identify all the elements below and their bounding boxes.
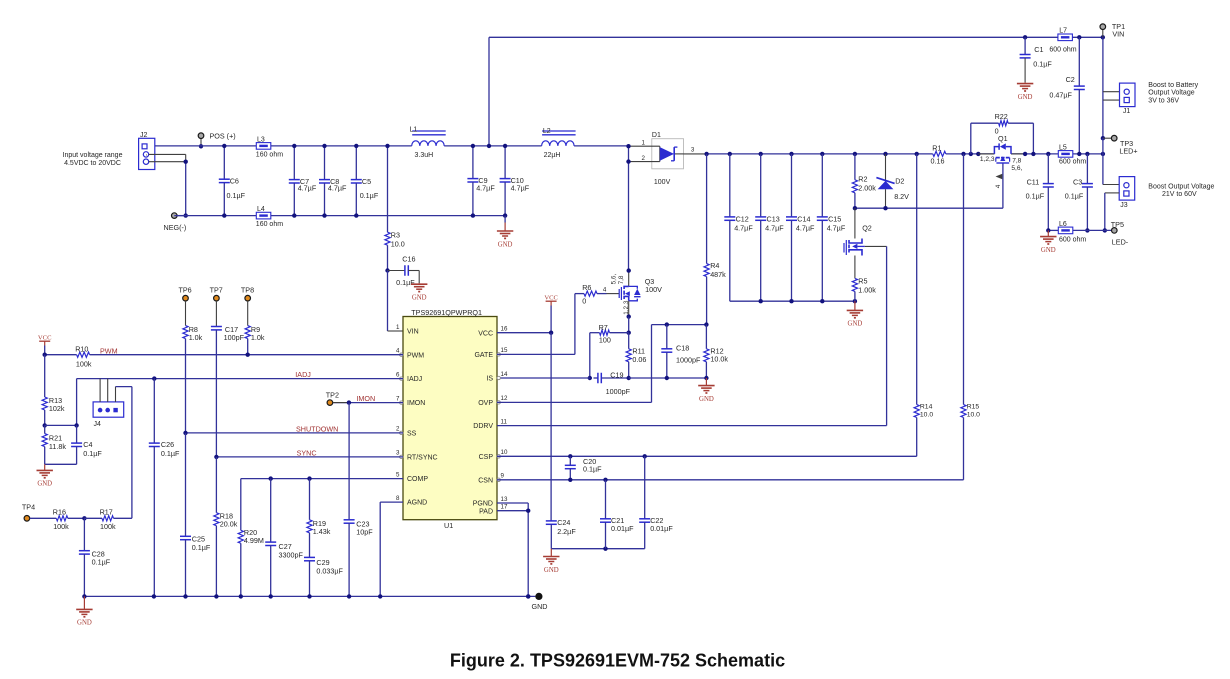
zener diode D2 — [883, 152, 887, 156]
svg-text:IMON: IMON — [356, 394, 375, 403]
wire DDRV net — [497, 425, 887, 427]
svg-text:L3: L3 — [257, 136, 265, 143]
wire IADJ net — [77, 378, 403, 380]
svg-text:IS: IS — [486, 376, 493, 383]
transistor Q2 — [844, 208, 872, 255]
svg-text:VIN: VIN — [1112, 30, 1124, 39]
svg-text:12: 12 — [501, 395, 508, 402]
capacitor C5 — [355, 146, 357, 180]
capacitor C10 — [504, 146, 506, 179]
svg-text:0.1µF: 0.1µF — [83, 449, 102, 458]
resistor R11 — [628, 333, 630, 349]
svg-text:0.1µF: 0.1µF — [583, 465, 602, 474]
ground below C24 — [550, 549, 552, 557]
svg-text:100k: 100k — [100, 522, 116, 531]
svg-text:R1: R1 — [932, 143, 941, 152]
connector J2 — [139, 132, 155, 170]
svg-text:1.00k: 1.00k — [858, 286, 876, 295]
svg-text:7: 7 — [396, 395, 400, 402]
svg-text:1000pF: 1000pF — [676, 355, 701, 364]
svg-text:R14: R14 — [920, 404, 933, 411]
svg-text:GND: GND — [1041, 247, 1056, 254]
wire Q3 source — [628, 301, 630, 317]
resistor R17 — [82, 516, 86, 520]
resistor R14 — [915, 152, 919, 156]
svg-text:L1: L1 — [410, 126, 418, 133]
svg-text:0.033µF: 0.033µF — [316, 566, 343, 575]
svg-text:GND: GND — [699, 396, 714, 403]
wire AGND net — [380, 501, 403, 503]
svg-text:TP2: TP2 — [326, 390, 339, 399]
op-amp U1 TPS92691QPWPRQ1 — [403, 308, 497, 530]
wire local gnd rail C24-C22 — [551, 548, 644, 550]
svg-text:2.00k: 2.00k — [858, 183, 876, 192]
test point TP8 — [245, 295, 251, 301]
svg-text:L2: L2 — [543, 128, 551, 135]
svg-text:R22: R22 — [995, 112, 1008, 121]
wire CSP net — [497, 455, 917, 457]
test point TP6 — [183, 295, 189, 301]
wire Q2 gate to DDRV — [865, 245, 887, 247]
svg-text:R10: R10 — [75, 345, 88, 354]
svg-text:GND: GND — [1018, 94, 1033, 101]
svg-text:2: 2 — [642, 155, 646, 162]
wire input bottom rail — [174, 215, 505, 217]
svg-text:4.7µF: 4.7µF — [328, 184, 347, 193]
ground below C28 rail — [83, 596, 85, 609]
wire CSN net — [497, 479, 964, 481]
svg-text:AGND: AGND — [407, 500, 427, 507]
svg-text:OVP: OVP — [478, 400, 493, 407]
svg-text:10pF: 10pF — [356, 528, 373, 537]
svg-text:11: 11 — [501, 418, 508, 425]
svg-text:160 ohm: 160 ohm — [256, 221, 283, 228]
svg-text:PWM: PWM — [407, 352, 424, 359]
svg-text:L4: L4 — [257, 206, 265, 213]
capacitor C19 — [588, 376, 592, 380]
svg-text:PAD: PAD — [479, 508, 493, 515]
ground below C10 — [504, 216, 506, 223]
resistor R19 — [307, 476, 311, 480]
node POS junction — [199, 144, 203, 148]
svg-text:2.2µF: 2.2µF — [557, 527, 576, 536]
svg-text:7,8: 7,8 — [1012, 157, 1021, 164]
wire IS net — [497, 377, 590, 379]
capacitor C3 — [1085, 152, 1089, 156]
svg-text:4.7µF: 4.7µF — [827, 224, 846, 233]
svg-text:100V: 100V — [645, 285, 662, 294]
wire OVP net — [497, 401, 652, 403]
wire Q3 gate stub — [607, 293, 620, 295]
wire J4 pin1 stub — [99, 379, 101, 402]
transistor Q3 — [619, 268, 662, 300]
wire GATE net — [497, 353, 575, 355]
wire NEG drop — [185, 162, 187, 216]
wire OVP riser — [651, 325, 653, 403]
svg-text:4.7µF: 4.7µF — [734, 224, 753, 233]
svg-text:R15: R15 — [967, 404, 980, 411]
svg-text:C26: C26 — [161, 440, 174, 449]
svg-text:SHUTDOWN: SHUTDOWN — [296, 424, 338, 433]
svg-text:600 ohm: 600 ohm — [1049, 47, 1076, 54]
svg-text:RT/SYNC: RT/SYNC — [407, 455, 438, 462]
svg-text:4.7µF: 4.7µF — [476, 184, 495, 193]
svg-text:7,8: 7,8 — [618, 275, 625, 284]
svg-text:LED-: LED- — [1112, 237, 1129, 246]
svg-text:L7: L7 — [1059, 27, 1067, 34]
svg-text:10.0: 10.0 — [391, 239, 405, 248]
svg-text:DDRV: DDRV — [473, 423, 493, 430]
wire boost output rail — [707, 153, 933, 155]
connector J4 — [93, 402, 124, 428]
capacitor C12 — [728, 152, 732, 156]
svg-text:1: 1 — [642, 139, 646, 146]
svg-text:J3: J3 — [1120, 202, 1128, 209]
wire J2 pin1 to POS — [145, 154, 148, 156]
svg-text:GND: GND — [498, 241, 513, 248]
wire PGND/PAD to GND — [497, 502, 528, 504]
svg-text:C3: C3 — [1073, 177, 1082, 186]
svg-text:COMP: COMP — [407, 476, 428, 483]
wire D1 anode junctions — [628, 146, 630, 271]
svg-text:IADJ: IADJ — [407, 376, 422, 383]
capacitor C28 — [83, 518, 85, 550]
svg-text:SYNC: SYNC — [297, 448, 317, 457]
svg-text:C1: C1 — [1034, 45, 1043, 54]
capacitor C21 — [603, 478, 607, 482]
resistor R2 — [853, 152, 857, 156]
resistor R1 — [933, 151, 946, 156]
resistor R15 — [961, 152, 965, 156]
svg-text:5,6,: 5,6, — [610, 274, 617, 285]
svg-text:0.1µF: 0.1µF — [161, 449, 180, 458]
wire RT/SYNC net — [216, 456, 403, 458]
svg-text:100k: 100k — [53, 522, 69, 531]
svg-text:CSN: CSN — [478, 477, 493, 484]
svg-text:Boost Output Voltage: Boost Output Voltage — [1148, 183, 1214, 190]
svg-text:Q2: Q2 — [862, 223, 872, 232]
transistor Q1 — [976, 134, 1027, 163]
test point TP7 — [214, 295, 220, 301]
svg-text:100V: 100V — [654, 179, 671, 186]
capacitor C6 — [223, 146, 225, 179]
svg-text:5,6,: 5,6, — [1011, 165, 1022, 172]
terminal GND — [535, 593, 542, 600]
svg-text:J2: J2 — [140, 132, 148, 139]
terminal POS(+) — [200, 138, 202, 146]
wire LED- bottom rail — [1048, 229, 1058, 231]
svg-text:C2: C2 — [1066, 75, 1075, 84]
svg-text:0.1µF: 0.1µF — [192, 543, 211, 552]
svg-text:Output Voltage: Output Voltage — [1148, 90, 1194, 97]
resistor R16 — [30, 517, 57, 519]
resistor R10 — [43, 353, 47, 357]
capacitor C4 — [45, 424, 77, 426]
svg-text:0.01µF: 0.01µF — [611, 524, 634, 533]
capacitor C29 — [304, 556, 315, 558]
svg-text:1000pF: 1000pF — [606, 387, 631, 396]
wire D1 output stub — [684, 153, 707, 155]
resistor R21 — [43, 423, 47, 427]
diode D1 — [629, 132, 684, 186]
wire PWM net — [45, 354, 76, 356]
resistor R12 — [704, 322, 708, 326]
svg-text:8.2V: 8.2V — [894, 192, 909, 201]
svg-text:GND: GND — [532, 602, 548, 611]
svg-text:IMON: IMON — [407, 400, 425, 407]
ferrite bead L5 — [1058, 151, 1073, 158]
capacitor C18 — [665, 322, 669, 326]
svg-text:4.7µF: 4.7µF — [511, 184, 530, 193]
capacitor C23 — [348, 403, 350, 520]
svg-text:13: 13 — [501, 496, 508, 503]
svg-text:0.01µF: 0.01µF — [650, 524, 673, 533]
test point TP3 — [1101, 136, 1105, 140]
svg-text:L5: L5 — [1059, 145, 1067, 152]
svg-text:NEG(-): NEG(-) — [164, 223, 187, 232]
capacitor C16 — [385, 268, 389, 272]
svg-text:C13: C13 — [767, 214, 780, 223]
ground below R21 — [44, 464, 46, 470]
test point TP2 — [327, 400, 333, 406]
svg-text:3V to 36V: 3V to 36V — [1148, 97, 1179, 104]
svg-text:GND: GND — [544, 567, 559, 574]
node SW riser junction — [487, 144, 491, 148]
svg-text:C19: C19 — [610, 370, 623, 379]
svg-text:C4: C4 — [83, 440, 92, 449]
svg-text:TP4: TP4 — [22, 503, 35, 512]
resistor R3 — [387, 146, 389, 232]
svg-text:14: 14 — [501, 371, 508, 378]
svg-text:D1: D1 — [652, 132, 661, 139]
wire VIN to U1 pin1 — [387, 271, 389, 332]
ferrite bead L3 — [256, 143, 271, 150]
resistor R4 — [704, 152, 708, 156]
svg-text:D2: D2 — [895, 177, 904, 186]
svg-text:10.0: 10.0 — [967, 411, 980, 418]
svg-text:100pF: 100pF — [224, 333, 245, 342]
svg-text:0: 0 — [582, 296, 586, 305]
svg-text:Input voltage range: Input voltage range — [63, 152, 123, 159]
svg-text:Q1: Q1 — [998, 134, 1008, 143]
svg-text:J4: J4 — [94, 421, 102, 428]
wire IMON net — [333, 402, 403, 404]
ground below C16 — [418, 283, 420, 284]
svg-text:2: 2 — [396, 426, 400, 433]
svg-text:PGND: PGND — [473, 501, 493, 508]
svg-text:160 ohm: 160 ohm — [256, 151, 283, 158]
svg-text:10.0k: 10.0k — [710, 355, 728, 364]
svg-text:POS (+): POS (+) — [210, 131, 236, 140]
svg-text:20.0k: 20.0k — [220, 520, 238, 529]
ground below R5 — [854, 301, 856, 310]
wire SS net — [186, 432, 404, 434]
svg-text:4: 4 — [603, 286, 607, 293]
wire Q1 gate drive line — [855, 207, 1003, 209]
svg-text:L6: L6 — [1059, 221, 1067, 228]
svg-text:4: 4 — [396, 348, 400, 355]
svg-text:6: 6 — [396, 371, 400, 378]
capacitor C27 — [269, 476, 273, 480]
svg-text:LED+: LED+ — [1119, 147, 1137, 156]
wire J2 pin2 — [149, 153, 186, 155]
svg-text:21V to 60V: 21V to 60V — [1162, 191, 1197, 198]
svg-text:0.1µF: 0.1µF — [227, 191, 246, 200]
svg-text:GND: GND — [412, 295, 427, 302]
svg-text:VCC: VCC — [478, 330, 493, 337]
capacitor C13 — [759, 152, 763, 156]
wire VCC stub down — [550, 306, 552, 333]
svg-text:Figure 2. TPS92691EVM-752 Sche: Figure 2. TPS92691EVM-752 Schematic — [450, 650, 785, 670]
svg-text:TPS92691QPWPRQ1: TPS92691QPWPRQ1 — [411, 308, 482, 317]
svg-text:100: 100 — [599, 336, 611, 345]
test point TP5 — [1112, 228, 1118, 234]
ground below R12 — [705, 378, 707, 386]
svg-text:0.16: 0.16 — [931, 157, 945, 166]
wire VCC pin16 — [497, 332, 551, 334]
capacitor C26 — [152, 376, 156, 380]
test point TP1 — [1101, 35, 1105, 39]
connector J1 — [1120, 83, 1136, 107]
wire AGND bottom rail — [84, 595, 535, 597]
svg-text:C18: C18 — [676, 344, 689, 353]
svg-text:0.1µF: 0.1µF — [92, 558, 111, 567]
wire main input rail — [155, 145, 256, 147]
svg-text:1: 1 — [396, 324, 400, 331]
ferrite bead L4 — [256, 212, 271, 219]
svg-text:CSP: CSP — [479, 454, 494, 461]
svg-text:0.1µF: 0.1µF — [1065, 192, 1084, 201]
svg-text:22µH: 22µH — [544, 152, 561, 159]
svg-text:TP6: TP6 — [179, 285, 192, 294]
svg-text:PWM: PWM — [100, 346, 118, 355]
wire VIN to J1 — [1102, 37, 1104, 138]
connector J3 — [1119, 177, 1135, 201]
svg-text:VIN: VIN — [407, 329, 419, 336]
wire J4 pin3 route — [115, 387, 117, 402]
capacitor C8 — [324, 146, 326, 180]
svg-text:5: 5 — [396, 471, 400, 478]
svg-text:1.0k: 1.0k — [251, 333, 265, 342]
wire COMP net — [241, 478, 403, 480]
svg-text:R16: R16 — [53, 507, 66, 516]
inductor L1 — [412, 141, 445, 146]
svg-text:SS: SS — [407, 431, 417, 438]
capacitor C14 — [789, 152, 793, 156]
svg-text:C12: C12 — [736, 214, 749, 223]
svg-text:TP7: TP7 — [210, 285, 223, 294]
capacitor C9 — [472, 146, 474, 179]
svg-text:U1: U1 — [444, 521, 453, 530]
svg-text:0.1µF: 0.1µF — [1026, 192, 1045, 201]
wire J2 pin3 — [149, 161, 186, 163]
svg-text:4.5VDC to 20VDC: 4.5VDC to 20VDC — [64, 160, 121, 167]
resistor R8 — [185, 301, 187, 326]
svg-text:C6: C6 — [230, 176, 239, 185]
svg-text:8: 8 — [396, 495, 400, 502]
svg-text:GATE: GATE — [474, 352, 493, 359]
capacitor C7 — [293, 146, 295, 180]
svg-text:4.7µF: 4.7µF — [298, 184, 317, 193]
svg-text:10: 10 — [501, 449, 508, 456]
inductor L2 — [542, 141, 575, 146]
svg-text:R3: R3 — [391, 230, 400, 239]
ground below C11/L6 — [1047, 230, 1049, 236]
svg-text:3300pF: 3300pF — [279, 550, 304, 559]
wire J4 pin2 stub — [107, 379, 109, 402]
svg-text:0.1µF: 0.1µF — [396, 278, 415, 287]
wire LED+ to J3 pin1 — [1101, 152, 1105, 156]
svg-text:4.99M: 4.99M — [244, 536, 264, 545]
svg-text:0.1µF: 0.1µF — [360, 191, 379, 200]
svg-text:TP8: TP8 — [241, 285, 254, 294]
svg-text:0.06: 0.06 — [632, 355, 646, 364]
svg-text:J1: J1 — [1123, 108, 1131, 115]
svg-text:1.0k: 1.0k — [189, 333, 203, 342]
svg-text:100k: 100k — [76, 359, 92, 368]
capacitor C15 — [820, 152, 824, 156]
svg-text:1.43k: 1.43k — [313, 527, 331, 536]
resistor R22 — [969, 152, 973, 156]
svg-text:3: 3 — [396, 450, 400, 457]
svg-text:4: 4 — [995, 184, 1002, 188]
svg-text:IADJ: IADJ — [295, 370, 311, 379]
svg-text:487k: 487k — [710, 270, 726, 279]
svg-text:4.7µF: 4.7µF — [765, 224, 784, 233]
svg-text:9: 9 — [501, 473, 505, 480]
ground below C1 — [1024, 82, 1026, 83]
svg-text:C24: C24 — [557, 518, 570, 527]
svg-text:16: 16 — [501, 326, 508, 333]
svg-text:3: 3 — [691, 146, 695, 153]
svg-text:C5: C5 — [362, 177, 371, 186]
wire VIN feedback top — [489, 36, 1103, 38]
capacitor C2 — [1077, 35, 1081, 39]
svg-text:R4: R4 — [710, 261, 719, 270]
svg-text:GND: GND — [37, 481, 52, 488]
resistor R13 — [44, 355, 46, 397]
svg-text:R6: R6 — [582, 283, 591, 292]
svg-text:4.7µF: 4.7µF — [796, 224, 815, 233]
wire C12-C15 bottom rail — [730, 300, 855, 302]
resistor R6 — [574, 294, 576, 355]
svg-text:R5: R5 — [858, 277, 867, 286]
capacitor C11 — [1046, 152, 1050, 156]
svg-text:R7: R7 — [599, 323, 608, 332]
svg-text:C16: C16 — [402, 255, 415, 264]
svg-text:15: 15 — [501, 347, 508, 354]
capacitor C17 — [215, 301, 217, 327]
svg-text:C15: C15 — [828, 214, 841, 223]
svg-text:17: 17 — [501, 504, 508, 511]
svg-text:Boost to Battery: Boost to Battery — [1148, 82, 1198, 89]
svg-text:102k: 102k — [49, 404, 65, 413]
ferrite bead L7 — [1058, 34, 1073, 41]
svg-text:1,2,3: 1,2,3 — [980, 156, 995, 163]
svg-text:C11: C11 — [1027, 177, 1040, 186]
svg-text:R17: R17 — [100, 507, 113, 516]
svg-text:TP5: TP5 — [1111, 220, 1124, 229]
svg-text:R2: R2 — [858, 174, 867, 183]
resistor R20 — [240, 479, 242, 531]
svg-text:0.1µF: 0.1µF — [1033, 59, 1052, 68]
svg-text:10.0: 10.0 — [920, 411, 933, 418]
svg-text:600 ohm: 600 ohm — [1059, 158, 1086, 165]
capacitor C22 — [643, 454, 647, 458]
svg-text:GND: GND — [848, 321, 863, 328]
capacitor C20 — [568, 454, 572, 458]
ferrite bead L6 — [1058, 227, 1073, 234]
